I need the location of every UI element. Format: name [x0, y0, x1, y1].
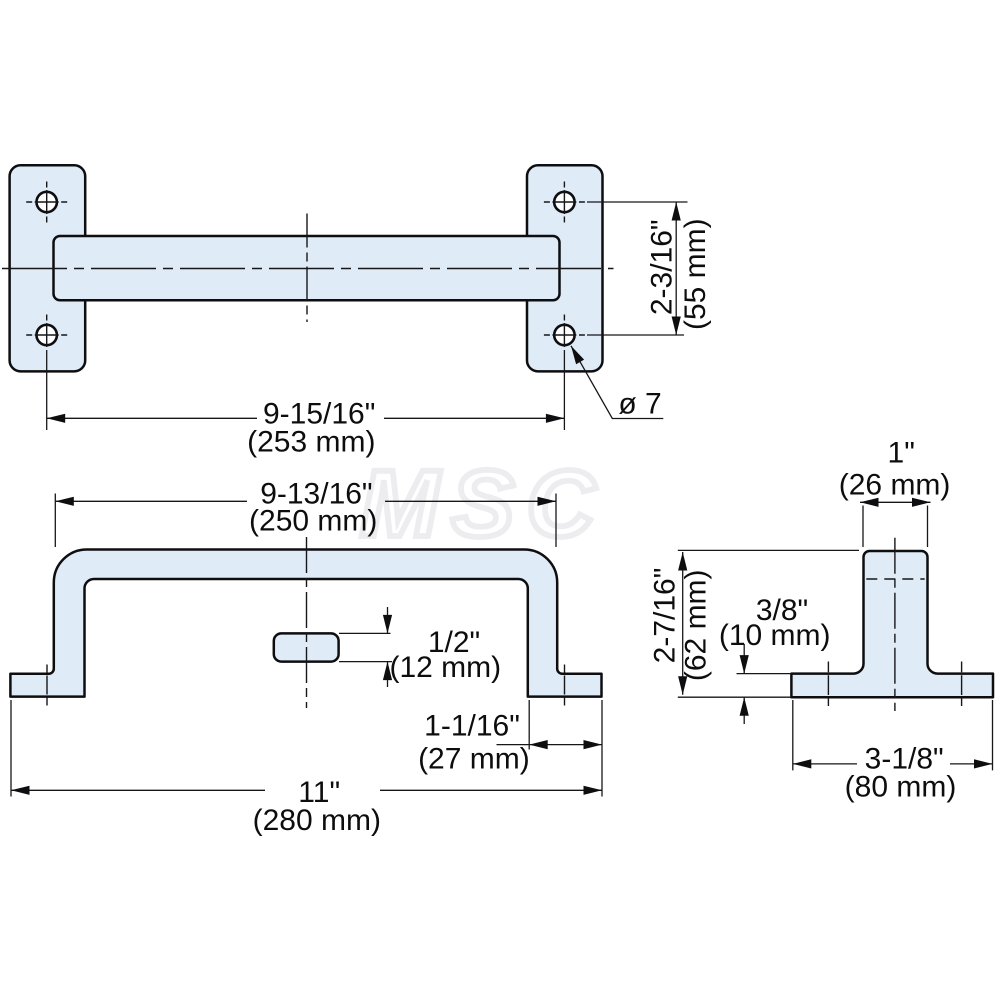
- svg-text:(55 mm): (55 mm): [679, 218, 712, 330]
- svg-text:(280 mm): (280 mm): [253, 804, 381, 837]
- extension line below left bottom hole: [46, 350, 48, 430]
- dimension 2-3/16 arrows: [672, 202, 681, 221]
- svg-text:(62 mm): (62 mm): [680, 569, 713, 681]
- dimension 1 inch line: [860, 501, 931, 503]
- top view right mounting plate: [527, 165, 603, 371]
- dimension 2-7/16 arrows: [678, 552, 687, 571]
- extension lines for 11 inch dimension: [11, 700, 602, 797]
- dimension 3/8 arrows: [743, 644, 745, 674]
- hole bottom-left: [26, 315, 67, 348]
- svg-text:(10 mm): (10 mm): [719, 619, 831, 652]
- leader arrowhead: [571, 346, 584, 364]
- svg-text:2-7/16": 2-7/16": [649, 568, 682, 664]
- dimension 2-7/16 line: [682, 552, 684, 695]
- svg-text:MSC: MSC: [360, 451, 607, 557]
- extension lines for 1/2 dimension: [339, 633, 392, 661]
- dimension 9-15/16 arrows: [47, 414, 65, 423]
- dimension 9-15/16 line: [47, 417, 565, 419]
- dimension 11 line: [11, 789, 602, 791]
- front view right foot hole centerline: [564, 665, 566, 706]
- leader line for hole diameter: [571, 346, 663, 419]
- hole top-left: [26, 182, 67, 223]
- svg-text:1": 1": [888, 437, 915, 470]
- svg-text:(250 mm): (250 mm): [249, 505, 377, 538]
- side view hidden dashed line: [866, 578, 924, 580]
- dimension 3-1/8 arrows: [793, 759, 812, 768]
- side view vertical centerline: [894, 538, 896, 711]
- svg-text:1-1/16": 1-1/16": [424, 710, 520, 743]
- extension lines for 1 inch dimension: [863, 506, 928, 548]
- svg-text:(26 mm): (26 mm): [839, 469, 951, 502]
- extension lines for 2-3/16 dimension: [587, 202, 688, 335]
- top view vertical centerline: [306, 214, 308, 323]
- svg-text:2-3/16": 2-3/16": [645, 219, 678, 315]
- svg-text:(27 mm): (27 mm): [418, 743, 530, 776]
- extension line for 1-1/16 dimension: [528, 700, 530, 750]
- extension lines for 9-13/16 dimension: [55, 494, 556, 548]
- front view left foot hole centerline: [46, 665, 48, 706]
- front view mounting slot: [274, 633, 339, 661]
- dimension 2-3/16 line: [675, 202, 677, 335]
- top view left mounting plate: [10, 165, 86, 371]
- dimension 9-13/16 arrows: [55, 497, 74, 506]
- front view vertical centerline: [306, 537, 308, 708]
- hole top-right: [544, 182, 585, 223]
- dimension 9-13/16 line: [55, 500, 556, 502]
- hole bottom-right: [544, 315, 585, 348]
- top view horizontal centerline: [2, 268, 614, 270]
- dimension 1 inch arrows: [860, 498, 879, 507]
- dimension 11 arrows: [11, 786, 30, 795]
- dimension 1/2 arrows: [387, 607, 389, 633]
- extension line below right bottom hole: [563, 350, 565, 430]
- dimension 3-1/8 line: [793, 763, 993, 765]
- extension line for 3/8 dimension: [737, 673, 792, 675]
- front view handle outline: [10, 550, 601, 697]
- side view flange hole centerline right: [961, 662, 963, 707]
- svg-text:(253 mm): (253 mm): [247, 426, 375, 459]
- top view handle bar: [54, 236, 560, 300]
- dimension 1-1/16 line: [497, 744, 603, 746]
- extension lines for 3-1/8 dimension: [793, 700, 993, 770]
- svg-text:(12 mm): (12 mm): [389, 651, 501, 684]
- dimension 1-1/16 arrows: [529, 740, 548, 749]
- svg-text:(80 mm): (80 mm): [845, 771, 957, 804]
- side view flange hole centerline left: [827, 662, 829, 707]
- svg-text:ø 7: ø 7: [618, 388, 661, 421]
- extension lines for 2-7/16 dimension: [678, 550, 859, 697]
- side view post and flange outline: [791, 551, 993, 697]
